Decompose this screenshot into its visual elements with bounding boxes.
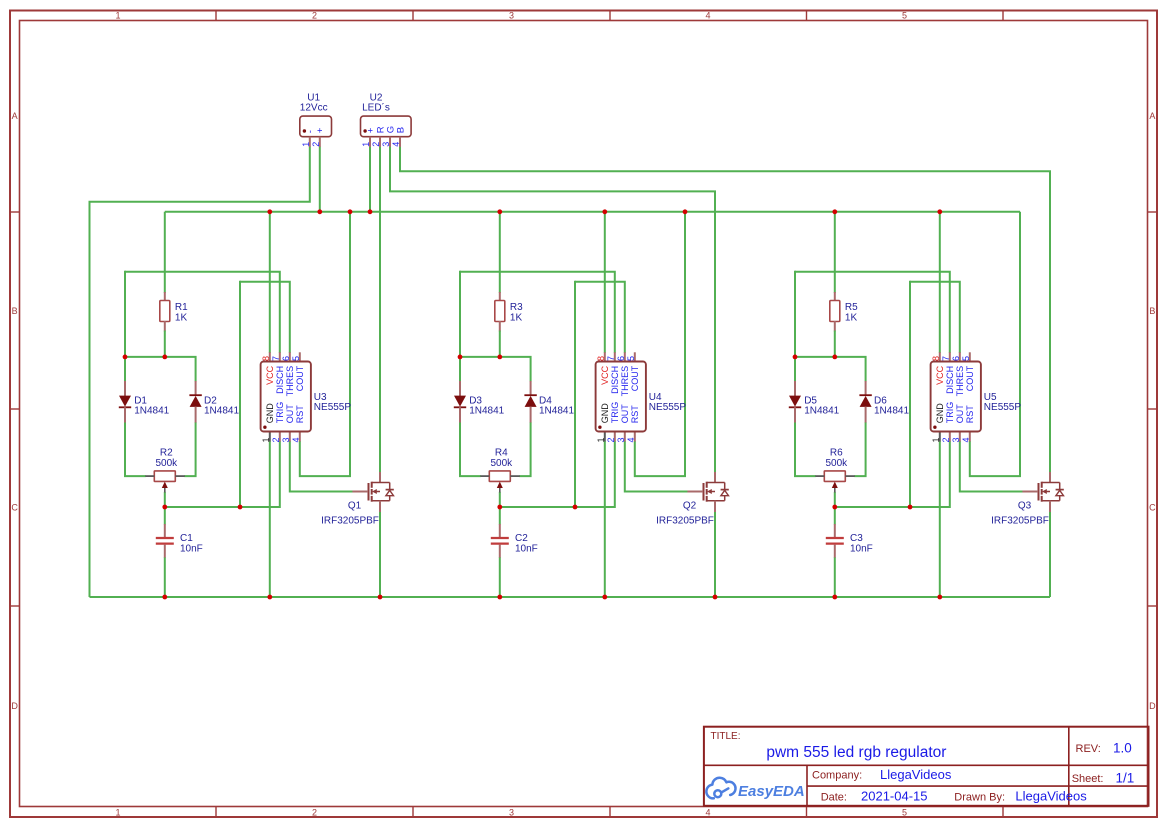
svg-text:1.0: 1.0 xyxy=(1113,740,1132,755)
svg-text:500k: 500k xyxy=(155,458,178,469)
svg-text:4: 4 xyxy=(626,437,636,442)
svg-text:7: 7 xyxy=(606,356,616,361)
svg-text:1: 1 xyxy=(361,142,371,147)
svg-text:B: B xyxy=(395,127,406,133)
svg-text:1: 1 xyxy=(931,437,941,442)
svg-text:Date:: Date: xyxy=(821,791,847,803)
svg-text:OUT: OUT xyxy=(955,404,965,424)
svg-text:7: 7 xyxy=(941,356,951,361)
svg-text:R3: R3 xyxy=(510,302,523,313)
svg-text:Company:: Company: xyxy=(812,770,862,782)
svg-text:2: 2 xyxy=(371,142,381,147)
svg-text:+: + xyxy=(315,127,326,133)
svg-text:TRIG: TRIG xyxy=(610,402,620,424)
svg-text:5: 5 xyxy=(626,356,636,361)
svg-text:NE555P: NE555P xyxy=(649,402,687,413)
svg-text:Q1: Q1 xyxy=(348,501,362,512)
svg-text:VCC: VCC xyxy=(600,365,610,385)
svg-text:IRF3205PBF: IRF3205PBF xyxy=(991,516,1049,527)
svg-text:6: 6 xyxy=(281,356,291,361)
svg-text:12Vcc: 12Vcc xyxy=(300,103,328,114)
svg-text:1N4841: 1N4841 xyxy=(469,405,504,416)
svg-text:COUT: COUT xyxy=(630,365,640,391)
svg-text:3: 3 xyxy=(616,437,626,442)
svg-text:10nF: 10nF xyxy=(180,543,203,554)
svg-text:D: D xyxy=(11,701,18,711)
svg-text:1N4841: 1N4841 xyxy=(804,405,839,416)
svg-text:1K: 1K xyxy=(845,313,858,324)
svg-text:C: C xyxy=(1149,503,1156,513)
svg-text:4: 4 xyxy=(705,807,710,817)
svg-text:1K: 1K xyxy=(510,313,523,324)
svg-text:A: A xyxy=(12,111,18,121)
svg-text:5: 5 xyxy=(902,807,907,817)
svg-text:1: 1 xyxy=(115,10,120,20)
svg-text:2: 2 xyxy=(271,437,281,442)
svg-text:2: 2 xyxy=(312,807,317,817)
svg-text:RST: RST xyxy=(965,405,975,424)
svg-text:Q2: Q2 xyxy=(683,501,697,512)
svg-text:RST: RST xyxy=(295,405,305,424)
svg-text:R6: R6 xyxy=(830,448,843,459)
svg-text:3: 3 xyxy=(951,437,961,442)
svg-text:Q3: Q3 xyxy=(1018,501,1032,512)
svg-text:C: C xyxy=(11,503,18,513)
svg-text:GND: GND xyxy=(935,403,945,424)
svg-text:R5: R5 xyxy=(845,302,858,313)
svg-text:TRIG: TRIG xyxy=(945,402,955,424)
svg-text:7: 7 xyxy=(271,356,281,361)
svg-text:C1: C1 xyxy=(180,533,193,544)
svg-text:2: 2 xyxy=(941,437,951,442)
svg-text:3: 3 xyxy=(509,10,514,20)
svg-text:R1: R1 xyxy=(175,302,188,313)
svg-text:6: 6 xyxy=(951,356,961,361)
svg-text:4: 4 xyxy=(961,437,971,442)
svg-text:LlegaVideos: LlegaVideos xyxy=(1015,789,1087,804)
svg-text:Drawn By:: Drawn By: xyxy=(954,791,1005,803)
svg-text:1: 1 xyxy=(596,437,606,442)
svg-text:EasyEDA: EasyEDA xyxy=(738,783,805,800)
svg-text:3: 3 xyxy=(281,437,291,442)
svg-text:GND: GND xyxy=(265,403,275,424)
svg-text:1N4841: 1N4841 xyxy=(539,405,574,416)
svg-text:DISCH: DISCH xyxy=(275,366,285,394)
svg-text:GND: GND xyxy=(600,403,610,424)
svg-text:VCC: VCC xyxy=(265,365,275,385)
svg-text:OUT: OUT xyxy=(620,404,630,424)
svg-text:IRF3205PBF: IRF3205PBF xyxy=(321,516,379,527)
svg-text:1K: 1K xyxy=(175,313,188,324)
svg-text:1: 1 xyxy=(301,142,311,147)
svg-text:Sheet:: Sheet: xyxy=(1072,773,1104,785)
svg-text:B: B xyxy=(12,306,18,316)
svg-text:R4: R4 xyxy=(495,448,508,459)
svg-text:4: 4 xyxy=(391,142,401,147)
svg-text:3: 3 xyxy=(509,807,514,817)
svg-text:COUT: COUT xyxy=(295,365,305,391)
svg-text:1N4841: 1N4841 xyxy=(134,405,169,416)
svg-text:10nF: 10nF xyxy=(850,543,873,554)
svg-text:COUT: COUT xyxy=(965,365,975,391)
svg-text:B: B xyxy=(1149,306,1155,316)
svg-text:2: 2 xyxy=(606,437,616,442)
svg-text:4: 4 xyxy=(705,10,710,20)
svg-text:1: 1 xyxy=(115,807,120,817)
svg-text:6: 6 xyxy=(616,356,626,361)
svg-text:DISCH: DISCH xyxy=(945,366,955,394)
svg-text:TITLE:: TITLE: xyxy=(711,731,741,742)
svg-text:DISCH: DISCH xyxy=(610,366,620,394)
svg-text:LlegaVideos: LlegaVideos xyxy=(880,767,952,782)
svg-text:2021-04-15: 2021-04-15 xyxy=(861,789,928,804)
svg-text:8: 8 xyxy=(261,356,271,361)
svg-text:OUT: OUT xyxy=(285,404,295,424)
svg-text:1N4841: 1N4841 xyxy=(874,405,909,416)
svg-text:2: 2 xyxy=(311,142,321,147)
svg-text:C3: C3 xyxy=(850,533,863,544)
svg-text:THRES: THRES xyxy=(955,366,965,397)
svg-text:VCC: VCC xyxy=(935,365,945,385)
svg-text:NE555P: NE555P xyxy=(314,402,352,413)
svg-text:IRF3205PBF: IRF3205PBF xyxy=(656,516,714,527)
svg-text:4: 4 xyxy=(291,437,301,442)
svg-text:A: A xyxy=(1149,111,1155,121)
svg-text:REV:: REV: xyxy=(1076,743,1101,755)
svg-text:C2: C2 xyxy=(515,533,528,544)
svg-text:1: 1 xyxy=(261,437,271,442)
svg-text:1/1: 1/1 xyxy=(1116,770,1135,785)
svg-text:5: 5 xyxy=(902,10,907,20)
svg-text:2: 2 xyxy=(312,10,317,20)
svg-text:5: 5 xyxy=(291,356,301,361)
svg-text:TRIG: TRIG xyxy=(275,402,285,424)
svg-text:8: 8 xyxy=(596,356,606,361)
svg-text:R2: R2 xyxy=(160,448,173,459)
svg-text:3: 3 xyxy=(381,142,391,147)
svg-text:10nF: 10nF xyxy=(515,543,538,554)
svg-text:THRES: THRES xyxy=(285,366,295,397)
svg-text:RST: RST xyxy=(630,405,640,424)
svg-text:500k: 500k xyxy=(825,458,848,469)
svg-text:8: 8 xyxy=(931,356,941,361)
svg-text:5: 5 xyxy=(961,356,971,361)
svg-text:THRES: THRES xyxy=(620,366,630,397)
svg-text:1N4841: 1N4841 xyxy=(204,405,239,416)
svg-text:D: D xyxy=(1149,701,1156,711)
svg-text:LED´s: LED´s xyxy=(362,102,390,114)
svg-text:pwm 555 led rgb regulator: pwm 555 led rgb regulator xyxy=(766,744,946,761)
svg-text:500k: 500k xyxy=(490,458,513,469)
svg-text:NE555P: NE555P xyxy=(984,402,1022,413)
